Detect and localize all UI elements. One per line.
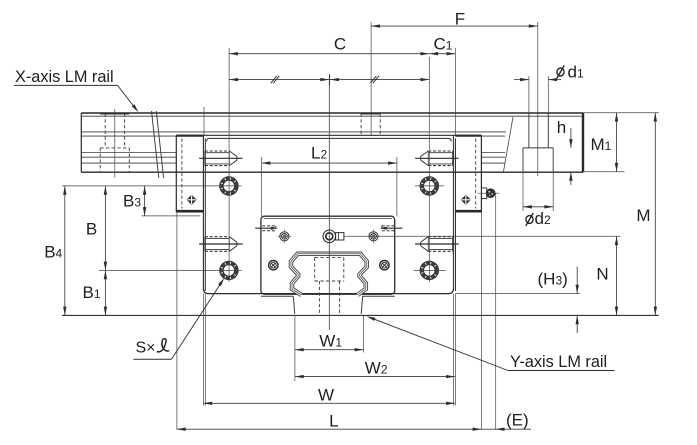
dim F xyxy=(371,24,537,27)
block groove band (rail profile) xyxy=(291,254,367,295)
label S x l (leader to hole) xyxy=(134,278,225,359)
rail bolt hole (left, hidden) xyxy=(100,109,129,178)
svg-text:L: L xyxy=(329,411,338,430)
rail right end edge xyxy=(582,113,584,172)
dim h xyxy=(557,118,573,185)
rail break lines xyxy=(152,111,159,178)
rail section bolt hole d1/d2 xyxy=(523,22,553,211)
label X-axis LM rail xyxy=(14,68,139,113)
table top edge xyxy=(176,135,481,141)
set screw upper-left xyxy=(199,151,242,166)
dim pitch C/2 xyxy=(229,74,429,86)
side grease nipple (right edge) xyxy=(478,188,500,199)
dim L xyxy=(177,428,482,431)
Y-axis LM block outline xyxy=(261,216,395,294)
svg-text:h: h xyxy=(557,118,566,137)
dim L2 xyxy=(262,161,397,164)
label Y-axis LM rail xyxy=(367,316,615,371)
grease arrow left xyxy=(255,226,278,231)
svg-text:M: M xyxy=(636,206,650,225)
rail bolt hole (middle, hidden) xyxy=(361,114,380,136)
block grease nipple (center) xyxy=(323,230,344,243)
vertical center line xyxy=(328,75,330,330)
dim W1 xyxy=(295,348,364,351)
dim M xyxy=(654,113,657,316)
dim (H3) xyxy=(538,267,579,334)
svg-text:B: B xyxy=(86,220,97,239)
svg-text:F: F xyxy=(455,10,465,29)
svg-text:Y-axis LM rail: Y-axis LM rail xyxy=(510,353,607,371)
retaining screw left (diamond mark) xyxy=(187,195,197,205)
table bolt hole lower-left xyxy=(220,261,238,279)
svg-text:X-axis LM rail: X-axis LM rail xyxy=(15,68,114,86)
block mounting screw top-right xyxy=(369,229,378,243)
table bolt hole upper-left xyxy=(220,177,238,195)
block mounting screw top-left xyxy=(278,229,292,243)
table side edges xyxy=(203,135,455,291)
svg-text:(E): (E) xyxy=(506,411,529,430)
block screw bottom-right xyxy=(380,261,389,270)
block bottom seal lines xyxy=(261,295,293,297)
dim M1 xyxy=(615,113,618,172)
dim B3 xyxy=(143,186,146,216)
Y-rail shank below block xyxy=(293,296,294,314)
dim W2 xyxy=(295,375,455,378)
horizontal center line through block holes / N extension xyxy=(344,235,621,237)
table right end strip xyxy=(455,135,481,212)
dim B1 xyxy=(104,270,107,315)
set screw lower-right xyxy=(415,237,458,252)
dim B4 xyxy=(63,186,66,316)
svg-text:(H3): (H3) xyxy=(538,270,568,289)
grease arrow right xyxy=(380,226,403,231)
rail section cut line xyxy=(504,117,514,172)
dim W xyxy=(203,402,455,405)
table left end strip xyxy=(176,135,203,212)
set screw upper-right xyxy=(415,151,458,166)
set screw lower-left xyxy=(199,237,242,252)
table bolt hole lower-right xyxy=(420,261,438,279)
table bottom edge xyxy=(203,289,453,294)
rail mounting baseline xyxy=(62,314,659,316)
dim C xyxy=(229,52,429,55)
dim phi-d1 xyxy=(514,63,584,82)
svg-text:C: C xyxy=(334,35,346,54)
dim C1 xyxy=(429,52,455,55)
dim N xyxy=(615,236,618,315)
retaining screw right (diamond mark) xyxy=(461,195,471,205)
block screw bottom-left xyxy=(269,261,278,270)
dim B xyxy=(104,186,107,271)
dim (E) xyxy=(481,411,531,431)
Y-rail hidden bolt hole xyxy=(315,258,344,314)
table bolt hole upper-right xyxy=(420,177,438,195)
extension lines xyxy=(62,22,659,430)
dim phi-d2 xyxy=(523,205,553,228)
svg-text:W: W xyxy=(318,386,334,405)
svg-text:N: N xyxy=(596,265,608,284)
X-axis LM rail body (side view) xyxy=(81,113,583,172)
svg-text:S×: S× xyxy=(136,339,156,356)
